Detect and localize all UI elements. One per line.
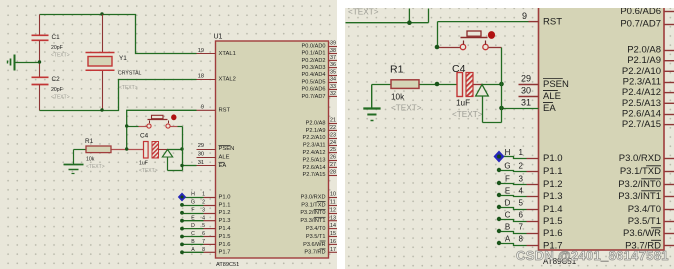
svg-text:F: F (191, 207, 194, 213)
pin 13 P3.3/INT1 (U1 right) (300, 215, 337, 224)
svg-text:P1.4: P1.4 (543, 204, 563, 215)
svg-text:C1: C1 (52, 34, 61, 41)
capacitor C2 20pF (32, 63, 70, 111)
svg-text:P0.7/AD7: P0.7/AD7 (302, 94, 326, 100)
pin 19 XTAL1 (U1 left) (197, 48, 236, 57)
wire C1/C2 midpoint to left ground (16, 60, 42, 63)
svg-text:6: 6 (519, 211, 524, 220)
pin P3.5 P3.5/T1 (right panel) (628, 216, 674, 227)
svg-text:EA: EA (219, 163, 227, 169)
svg-text:P3.0/RXD: P3.0/RXD (619, 153, 661, 164)
pin 33 P0.6/AD6 (U1 right) (302, 84, 338, 93)
svg-text:P3.2/INT0: P3.2/INT0 (300, 210, 325, 216)
svg-text:E: E (505, 187, 510, 196)
svg-text:P3.1/TXD: P3.1/TXD (620, 166, 661, 177)
pin P3.3 P3.3/INT1 (right panel) (618, 191, 674, 202)
svg-text:P0.7/AD7: P0.7/AD7 (620, 19, 661, 30)
svg-text:1: 1 (202, 192, 205, 198)
svg-text:P0.3/AD3: P0.3/AD3 (302, 65, 326, 71)
svg-text:P1.3: P1.3 (543, 191, 563, 202)
svg-text:20pF: 20pF (51, 45, 63, 51)
svg-text:P3.1/TXD: P3.1/TXD (301, 202, 325, 208)
svg-text:P3.4/T0: P3.4/T0 (306, 226, 326, 232)
svg-text:P3.7/RD: P3.7/RD (304, 250, 325, 256)
svg-text:G: G (191, 200, 195, 206)
wire RST net (right panel) (438, 22, 539, 48)
pin 18 XTAL2 (U1 left) (197, 73, 236, 82)
svg-text:21: 21 (330, 118, 336, 124)
pin 4 P1.3 (U1 left) with net E wire stub (180, 215, 230, 224)
svg-text:P1.2: P1.2 (219, 210, 231, 216)
red indicator dot of button (171, 114, 176, 120)
pin 7 P1.6 (U1 left) with net B wire stub (180, 239, 230, 248)
ground (left, rotated) (8, 55, 15, 71)
pin P2.7/A15 (right panel) (622, 119, 674, 130)
svg-text:H: H (505, 148, 511, 157)
red indicator dot of button (right panel) (488, 31, 495, 39)
svg-text:28: 28 (330, 169, 336, 175)
svg-text:10k: 10k (391, 93, 405, 102)
pin 27 P2.6/A14 (U1 right) (302, 162, 337, 171)
svg-text:32: 32 (330, 91, 336, 97)
pin 29 PSEN (right panel) (519, 74, 570, 91)
svg-text:P1.3: P1.3 (219, 218, 231, 224)
svg-text:H: H (191, 192, 195, 198)
svg-text:11: 11 (330, 200, 336, 206)
svg-text:P1.5: P1.5 (219, 234, 231, 240)
svg-text:24: 24 (330, 140, 336, 146)
svg-text:37: 37 (330, 55, 336, 61)
svg-text:5: 5 (519, 199, 524, 208)
pin 11 P3.1/TXD (U1 right) (301, 200, 337, 209)
wire RST node R1-C4 (right panel) (435, 82, 458, 87)
svg-text:29: 29 (521, 74, 531, 84)
crystal Y1 CRYSTAL (86, 15, 142, 111)
svg-text:P3.6/WR: P3.6/WR (303, 242, 325, 248)
pin P2.4/A12 (right panel) (622, 87, 674, 98)
svg-text:P2.5/A13: P2.5/A13 (302, 157, 325, 163)
svg-text:P2.3/A11: P2.3/A11 (623, 77, 661, 88)
pin P2.3/A11 (right panel) (623, 77, 674, 88)
svg-text:CRYSTAL: CRYSTAL (118, 71, 142, 77)
svg-text:R1: R1 (85, 138, 94, 145)
pin 3 P1.2 (U1 left) with net F wire stub (180, 207, 230, 216)
pin 30 ALE (right panel) (519, 86, 561, 103)
svg-text:P0.0/AD0: P0.0/AD0 (302, 43, 326, 49)
svg-text:35: 35 (330, 69, 336, 75)
svg-text:10: 10 (330, 192, 336, 198)
svg-text:P2.3/A11: P2.3/A11 (303, 143, 326, 149)
pin 9 RST (right panel) (522, 11, 562, 28)
pin 1 P1.0 (right panel) with net H wire stub (500, 148, 563, 164)
pin 24 P2.3/A11 (U1 right) (303, 140, 338, 149)
svg-text:7: 7 (202, 239, 205, 245)
svg-text:P2.5/A13: P2.5/A13 (622, 98, 661, 109)
pin P0.6/AD6 (right panel) (620, 6, 674, 17)
pin 2 P1.1 (U1 left) with net G wire stub (180, 200, 230, 209)
svg-text:<TEXT>: <TEXT> (119, 85, 138, 91)
svg-text:30: 30 (521, 86, 531, 96)
wire button/VCC branch to EA (right panel) (483, 48, 502, 123)
svg-text:XTAL2: XTAL2 (219, 76, 236, 82)
svg-text:3: 3 (519, 175, 524, 184)
svg-text:P3.5/T1: P3.5/T1 (628, 216, 661, 227)
svg-text:22: 22 (330, 125, 336, 131)
svg-text:P0.2/AD2: P0.2/AD2 (302, 58, 326, 64)
svg-text:P1.0: P1.0 (543, 153, 563, 164)
svg-text:39: 39 (330, 41, 336, 47)
wire RST node (R1 to C4) (112, 147, 144, 150)
wire top rail (C1 top to XTAL1 branch) (40, 15, 197, 54)
wire button/VCC branch to EA (168, 127, 197, 171)
svg-text:27: 27 (330, 162, 336, 168)
svg-text:1: 1 (519, 148, 524, 157)
pin P2.5/A13 (right panel) (622, 98, 674, 109)
power VCC arrow (right panel) (476, 85, 489, 123)
pin 32 P0.7/AD7 (U1 right) (302, 91, 338, 100)
svg-text:R1: R1 (390, 64, 404, 76)
svg-text:B: B (191, 239, 195, 245)
pin 3 P1.2 (right panel) with net F wire stub (497, 175, 563, 191)
svg-text:8: 8 (202, 247, 205, 253)
pin 31 EA (U1 left) (197, 160, 227, 169)
pin 12 P3.2/INT0 (U1 right) (300, 207, 337, 216)
ground (below R1, right panel) (363, 85, 380, 121)
svg-text:10k: 10k (86, 157, 95, 163)
svg-text:ALE: ALE (543, 91, 561, 102)
svg-text:P1.6: P1.6 (219, 242, 231, 248)
svg-text:P1.1: P1.1 (543, 166, 563, 177)
svg-text:36: 36 (330, 62, 336, 68)
svg-text:5: 5 (202, 223, 205, 229)
svg-text:7: 7 (519, 223, 524, 232)
pin P3.7 P3.7/RD (right panel) (625, 240, 674, 251)
svg-text:29: 29 (198, 143, 204, 149)
svg-text:9: 9 (201, 105, 204, 111)
pin 1 P1.0 (U1 left) with net H wire stub (183, 192, 231, 201)
svg-text:P2.2/A10: P2.2/A10 (302, 135, 325, 141)
capacitor C1 20pF (32, 15, 70, 63)
svg-text:18: 18 (198, 73, 204, 79)
svg-text:P2.1/A9: P2.1/A9 (627, 55, 661, 66)
pin 36 P0.3/AD3 (U1 right) (302, 62, 338, 71)
svg-text:A: A (191, 247, 195, 253)
ground (below R1) (64, 150, 84, 174)
pin 28 P2.7/A15 (U1 right) (302, 169, 337, 178)
IC U1 AT89C51 microcontroller (right panel) (539, 5, 665, 250)
pin 7 P1.6 (right panel) with net B wire stub (497, 223, 563, 240)
svg-text:2: 2 (519, 162, 524, 171)
capacitor C4 1uF (right panel) (452, 63, 483, 119)
svg-text:EA: EA (543, 103, 556, 114)
pin 30 ALE (U1 left) (197, 151, 230, 160)
svg-text:30: 30 (198, 151, 204, 157)
svg-text:C4: C4 (140, 133, 149, 140)
pin P2.2/A10 (right panel) (622, 66, 674, 77)
svg-text:P0.6/AD6: P0.6/AD6 (302, 87, 326, 93)
svg-text:<TEXT>: <TEXT> (348, 8, 379, 17)
svg-text:P3.6/WR: P3.6/WR (623, 228, 661, 239)
svg-text:RST: RST (219, 108, 231, 114)
svg-text:12: 12 (330, 207, 336, 213)
svg-text:P2.4/A12: P2.4/A12 (622, 87, 661, 98)
pin 26 P2.5/A13 (U1 right) (302, 155, 337, 164)
pin P3.0 P3.0/RXD (right panel) (619, 153, 674, 164)
IC U1 AT89C51 microcontroller (216, 41, 329, 258)
svg-text:<TEXT>: <TEXT> (139, 168, 158, 174)
svg-text:P1.0: P1.0 (219, 194, 231, 200)
svg-text:1uF: 1uF (139, 161, 148, 167)
svg-text:31: 31 (198, 160, 204, 166)
pin 21 P2.0/A8 (U1 right) (306, 118, 338, 127)
svg-text:P2.7/A15: P2.7/A15 (302, 172, 325, 178)
pin P3.4 P3.4/T0 (right panel) (628, 204, 674, 215)
svg-text:9: 9 (522, 11, 527, 21)
capacitor C4 1uF (polarized) (139, 133, 159, 175)
svg-text:P1.7: P1.7 (219, 250, 231, 256)
svg-text:34: 34 (330, 77, 336, 83)
pin 25 P2.4/A12 (U1 right) (302, 147, 337, 156)
svg-text:P2.6/A14: P2.6/A14 (622, 108, 661, 119)
svg-text:8: 8 (519, 235, 524, 244)
svg-text:17: 17 (330, 247, 336, 253)
svg-text:E: E (191, 215, 195, 221)
svg-text:P3.3/INT1: P3.3/INT1 (618, 191, 661, 202)
pin P3.2 P3.2/INT0 (right panel) (618, 179, 674, 190)
resistor R1 10k (74, 138, 112, 170)
svg-text:P1.6: P1.6 (543, 228, 563, 239)
svg-text:13: 13 (330, 215, 336, 221)
svg-text:31: 31 (521, 98, 531, 108)
pin 22 P2.1/A9 (U1 right) (306, 125, 338, 134)
pin 8 P1.7 (U1 left) with net A wire stub (180, 247, 230, 256)
svg-text:P0.4/AD4: P0.4/AD4 (302, 72, 326, 78)
svg-text:D: D (191, 223, 195, 229)
svg-text:4: 4 (202, 215, 205, 221)
node P1.0 blue probe diamond (right panel) (494, 151, 505, 163)
svg-text:P3.3/INT1: P3.3/INT1 (300, 218, 325, 224)
pin 16 P3.6/WR (U1 right) (303, 239, 337, 248)
svg-text:23: 23 (330, 132, 336, 138)
pin 29 PSEN (U1 left) (197, 143, 235, 152)
svg-text:<TEXT>: <TEXT> (86, 164, 105, 170)
svg-text:P3.5/T1: P3.5/T1 (306, 234, 326, 240)
pin 35 P0.4/AD4 (U1 right) (302, 69, 338, 78)
node P1.0 blue probe diamond (178, 193, 186, 202)
svg-text:D: D (505, 199, 511, 208)
pin 8 P1.7 (right panel) with net A wire stub (497, 235, 563, 252)
svg-text:ALE: ALE (219, 154, 230, 160)
svg-text:2: 2 (202, 200, 205, 206)
svg-text:20pF: 20pF (51, 87, 63, 93)
svg-text:PSEN: PSEN (543, 79, 569, 90)
svg-text:<TEXT>: <TEXT> (51, 95, 70, 101)
svg-text:P3.4/T0: P3.4/T0 (628, 204, 661, 215)
power VCC arrow (162, 150, 172, 171)
pin 6 P1.5 (U1 left) with net C wire stub (180, 231, 230, 240)
U1 reference label (214, 34, 223, 41)
svg-text:Y1: Y1 (119, 55, 127, 62)
svg-text:4: 4 (519, 187, 524, 196)
wire bottom rail (C2 bottom / crystal bottom / XTAL2 branch) (40, 80, 197, 112)
crystal <TEXT> label (cut) (348, 8, 379, 17)
push button (reset, right panel) (435, 31, 502, 50)
svg-text:6: 6 (202, 231, 205, 237)
pin P2.0/A8 (right panel) (627, 45, 674, 56)
pin 5 P1.4 (right panel) with net D wire stub (497, 199, 563, 216)
svg-text:16: 16 (330, 239, 336, 245)
wire C4 to VCC node (right panel) (474, 82, 504, 87)
wire C4 to VCC node (159, 147, 184, 150)
svg-text:P1.1: P1.1 (219, 202, 231, 208)
svg-text:P2.1/A9: P2.1/A9 (306, 128, 326, 134)
pin 15 P3.5/T1 (U1 right) (306, 231, 338, 240)
svg-text:19: 19 (198, 48, 204, 54)
node junction crystal top (100, 12, 103, 15)
svg-text:P1.4: P1.4 (219, 226, 232, 232)
pin 2 P1.1 (right panel) with net G wire stub (497, 162, 563, 178)
svg-text:P3.2/INT0: P3.2/INT0 (618, 179, 661, 190)
pin 5 P1.4 (U1 left) with net D wire stub (180, 223, 231, 232)
svg-text:1uF: 1uF (456, 99, 470, 108)
svg-text:P2.2/A10: P2.2/A10 (622, 66, 661, 77)
svg-text:G: G (504, 162, 510, 171)
pin 9 RST (U1 left) (197, 105, 231, 114)
pin P3.1 P3.1/TXD (right panel) (620, 166, 674, 177)
AT89C51 value label (right panel) (543, 257, 577, 266)
wire RST net (127, 110, 197, 149)
resistor R1 10k (right panel) (372, 64, 438, 113)
svg-text:C2: C2 (52, 76, 61, 83)
pin 37 P0.2/AD2 (U1 right) (302, 55, 338, 64)
push button (reset) (125, 115, 183, 128)
pin 31 EA wire (right panel) (499, 98, 556, 115)
svg-text:P1.2: P1.2 (543, 179, 563, 190)
svg-text:P2.0/A8: P2.0/A8 (306, 120, 326, 126)
svg-text:38: 38 (330, 48, 336, 54)
svg-text:26: 26 (330, 155, 336, 161)
svg-text:B: B (505, 223, 510, 232)
pin 14 P3.4/T0 (U1 right) (306, 223, 338, 232)
svg-text:25: 25 (330, 147, 336, 153)
pin 17 P3.7/RD (U1 right) (304, 247, 337, 256)
pin 38 P0.1/AD1 (U1 right) (302, 48, 338, 57)
svg-text:3: 3 (202, 207, 205, 213)
watermark CSDN (516, 248, 669, 263)
svg-text:PSEN: PSEN (219, 146, 235, 152)
pin P0.7/AD7 (right panel) (620, 19, 674, 30)
pin 34 P0.5/AD5 (U1 right) (302, 77, 338, 86)
pin 4 P1.3 (right panel) with net E wire stub (497, 187, 563, 203)
svg-text:P0.5/AD5: P0.5/AD5 (302, 79, 326, 85)
pin 10 P3.0/RXD (U1 right) (301, 192, 338, 201)
svg-text:15: 15 (330, 231, 336, 237)
pin P2.1/A9 (right panel) (627, 55, 674, 66)
svg-text:F: F (505, 175, 510, 184)
pin 39 P0.0/AD0 (U1 right) (302, 41, 338, 50)
AT89C51 value label (216, 262, 239, 268)
wire bottom rail with crystal/XTAL2 branches (cut at top) (346, 9, 429, 26)
svg-text:AT89C51: AT89C51 (216, 262, 239, 268)
svg-text:C: C (505, 211, 511, 220)
pin P2.6/A14 (right panel) (622, 108, 674, 119)
svg-text:<TEXT>: <TEXT> (51, 53, 70, 59)
svg-text:P1.5: P1.5 (543, 216, 563, 227)
svg-text:C4: C4 (452, 63, 466, 75)
pin P3.6 P3.6/WR (right panel) (623, 228, 674, 239)
svg-text:P2.6/A14: P2.6/A14 (302, 165, 325, 171)
svg-text:<TEXT>: <TEXT> (452, 110, 483, 119)
pin 6 P1.5 (right panel) with net C wire stub (497, 211, 563, 228)
svg-text:XTAL1: XTAL1 (219, 51, 236, 57)
svg-text:RST: RST (543, 17, 562, 28)
svg-text:P0.1/AD1: P0.1/AD1 (302, 51, 326, 57)
svg-text:C: C (191, 231, 195, 237)
svg-text:A: A (505, 235, 511, 244)
svg-text:P2.7/A15: P2.7/A15 (622, 119, 661, 130)
svg-text:P0.6/AD6: P0.6/AD6 (620, 8, 661, 17)
svg-text:14: 14 (330, 223, 336, 229)
svg-text:P3.0/RXD: P3.0/RXD (301, 194, 326, 200)
svg-text:P2.0/A8: P2.0/A8 (627, 45, 661, 56)
svg-text:U1: U1 (214, 34, 223, 41)
svg-text:P2.4/A12: P2.4/A12 (302, 150, 325, 156)
svg-text:<TEXT>: <TEXT> (391, 104, 422, 113)
svg-text:33: 33 (330, 84, 336, 90)
pin 23 P2.2/A10 (U1 right) (302, 132, 337, 141)
